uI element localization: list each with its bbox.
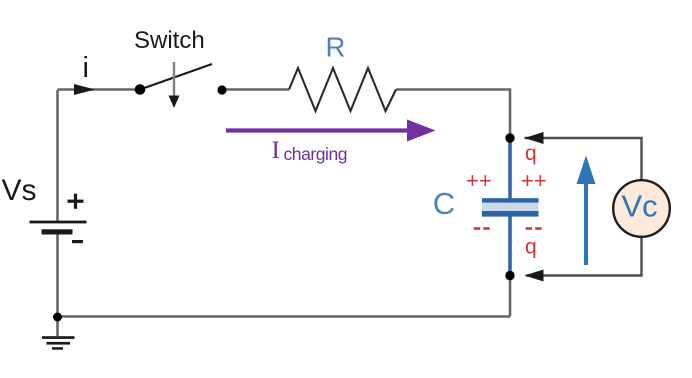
svg-text:++: ++ [521,168,547,193]
svg-text:R: R [326,31,346,62]
svg-text:Vs: Vs [2,174,37,207]
svg-text:++: ++ [466,168,492,193]
svg-text:Switch: Switch [134,27,205,54]
svg-text:q: q [525,142,537,165]
svg-text:I: I [272,137,280,164]
svg-text:C: C [433,186,455,221]
svg-text:q: q [525,236,537,259]
svg-text:Vc: Vc [622,189,658,224]
svg-text:i: i [83,52,89,84]
svg-text:charging: charging [284,144,348,164]
